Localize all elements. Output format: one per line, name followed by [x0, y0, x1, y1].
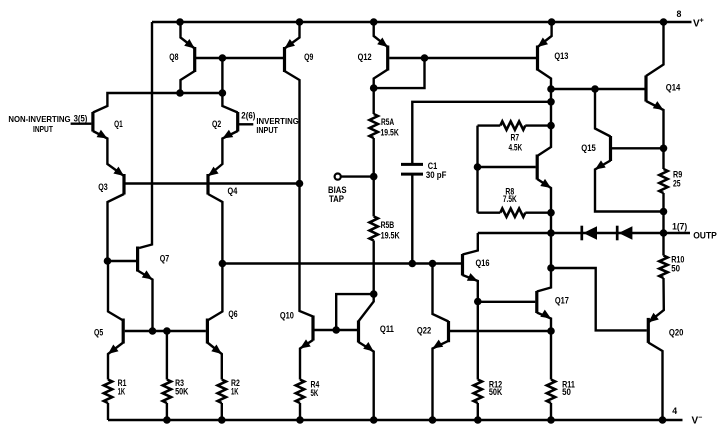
svg-text:19.5K: 19.5K [381, 128, 400, 138]
svg-text:Q11: Q11 [380, 324, 394, 334]
svg-text:1K: 1K [118, 387, 126, 397]
svg-text:4: 4 [672, 406, 677, 416]
svg-text:Q22: Q22 [417, 326, 431, 336]
svg-text:R7: R7 [511, 133, 520, 143]
svg-text:50: 50 [562, 387, 571, 397]
svg-text:R5A: R5A [381, 117, 395, 127]
svg-text:Q5: Q5 [94, 328, 103, 338]
svg-text:1(7): 1(7) [672, 221, 687, 231]
svg-text:Q1: Q1 [114, 119, 123, 129]
svg-text:Q9: Q9 [304, 52, 313, 62]
svg-text:Q8: Q8 [169, 52, 178, 62]
svg-text:Q6: Q6 [228, 309, 237, 319]
svg-text:Q14: Q14 [666, 83, 681, 93]
svg-text:Q3: Q3 [98, 182, 108, 192]
svg-text:3(5): 3(5) [74, 113, 88, 123]
svg-text:Q20: Q20 [669, 328, 684, 338]
svg-text:2(6): 2(6) [241, 110, 255, 120]
svg-text:1K: 1K [231, 387, 239, 397]
svg-text:Q16: Q16 [476, 258, 490, 268]
svg-text:50K: 50K [175, 387, 189, 397]
svg-text:50: 50 [671, 263, 680, 273]
svg-text:30 pF: 30 pF [426, 170, 447, 180]
svg-text:50K: 50K [489, 387, 503, 397]
svg-text:INPUT: INPUT [33, 124, 53, 134]
svg-text:19.5K: 19.5K [381, 231, 401, 241]
svg-text:Q13: Q13 [554, 51, 568, 61]
svg-text:OUTPUT: OUTPUT [693, 230, 717, 240]
svg-text:Q4: Q4 [228, 186, 238, 196]
svg-text:8: 8 [677, 9, 682, 19]
svg-text:5K: 5K [311, 388, 319, 398]
svg-text:NON-INVERTING: NON-INVERTING [8, 114, 70, 124]
svg-text:INPUT: INPUT [256, 125, 278, 135]
svg-text:Q12: Q12 [358, 52, 372, 62]
svg-text:R5B: R5B [381, 220, 395, 230]
svg-text:Q2: Q2 [212, 119, 221, 129]
svg-text:Q15: Q15 [581, 143, 596, 153]
svg-text:Q7: Q7 [160, 254, 170, 264]
svg-text:TAP: TAP [329, 194, 344, 204]
svg-text:Q10: Q10 [280, 311, 294, 321]
svg-text:4.5K: 4.5K [509, 142, 523, 152]
svg-text:25: 25 [673, 179, 681, 189]
svg-text:Q17: Q17 [555, 296, 569, 306]
svg-text:7.5K: 7.5K [503, 194, 517, 204]
